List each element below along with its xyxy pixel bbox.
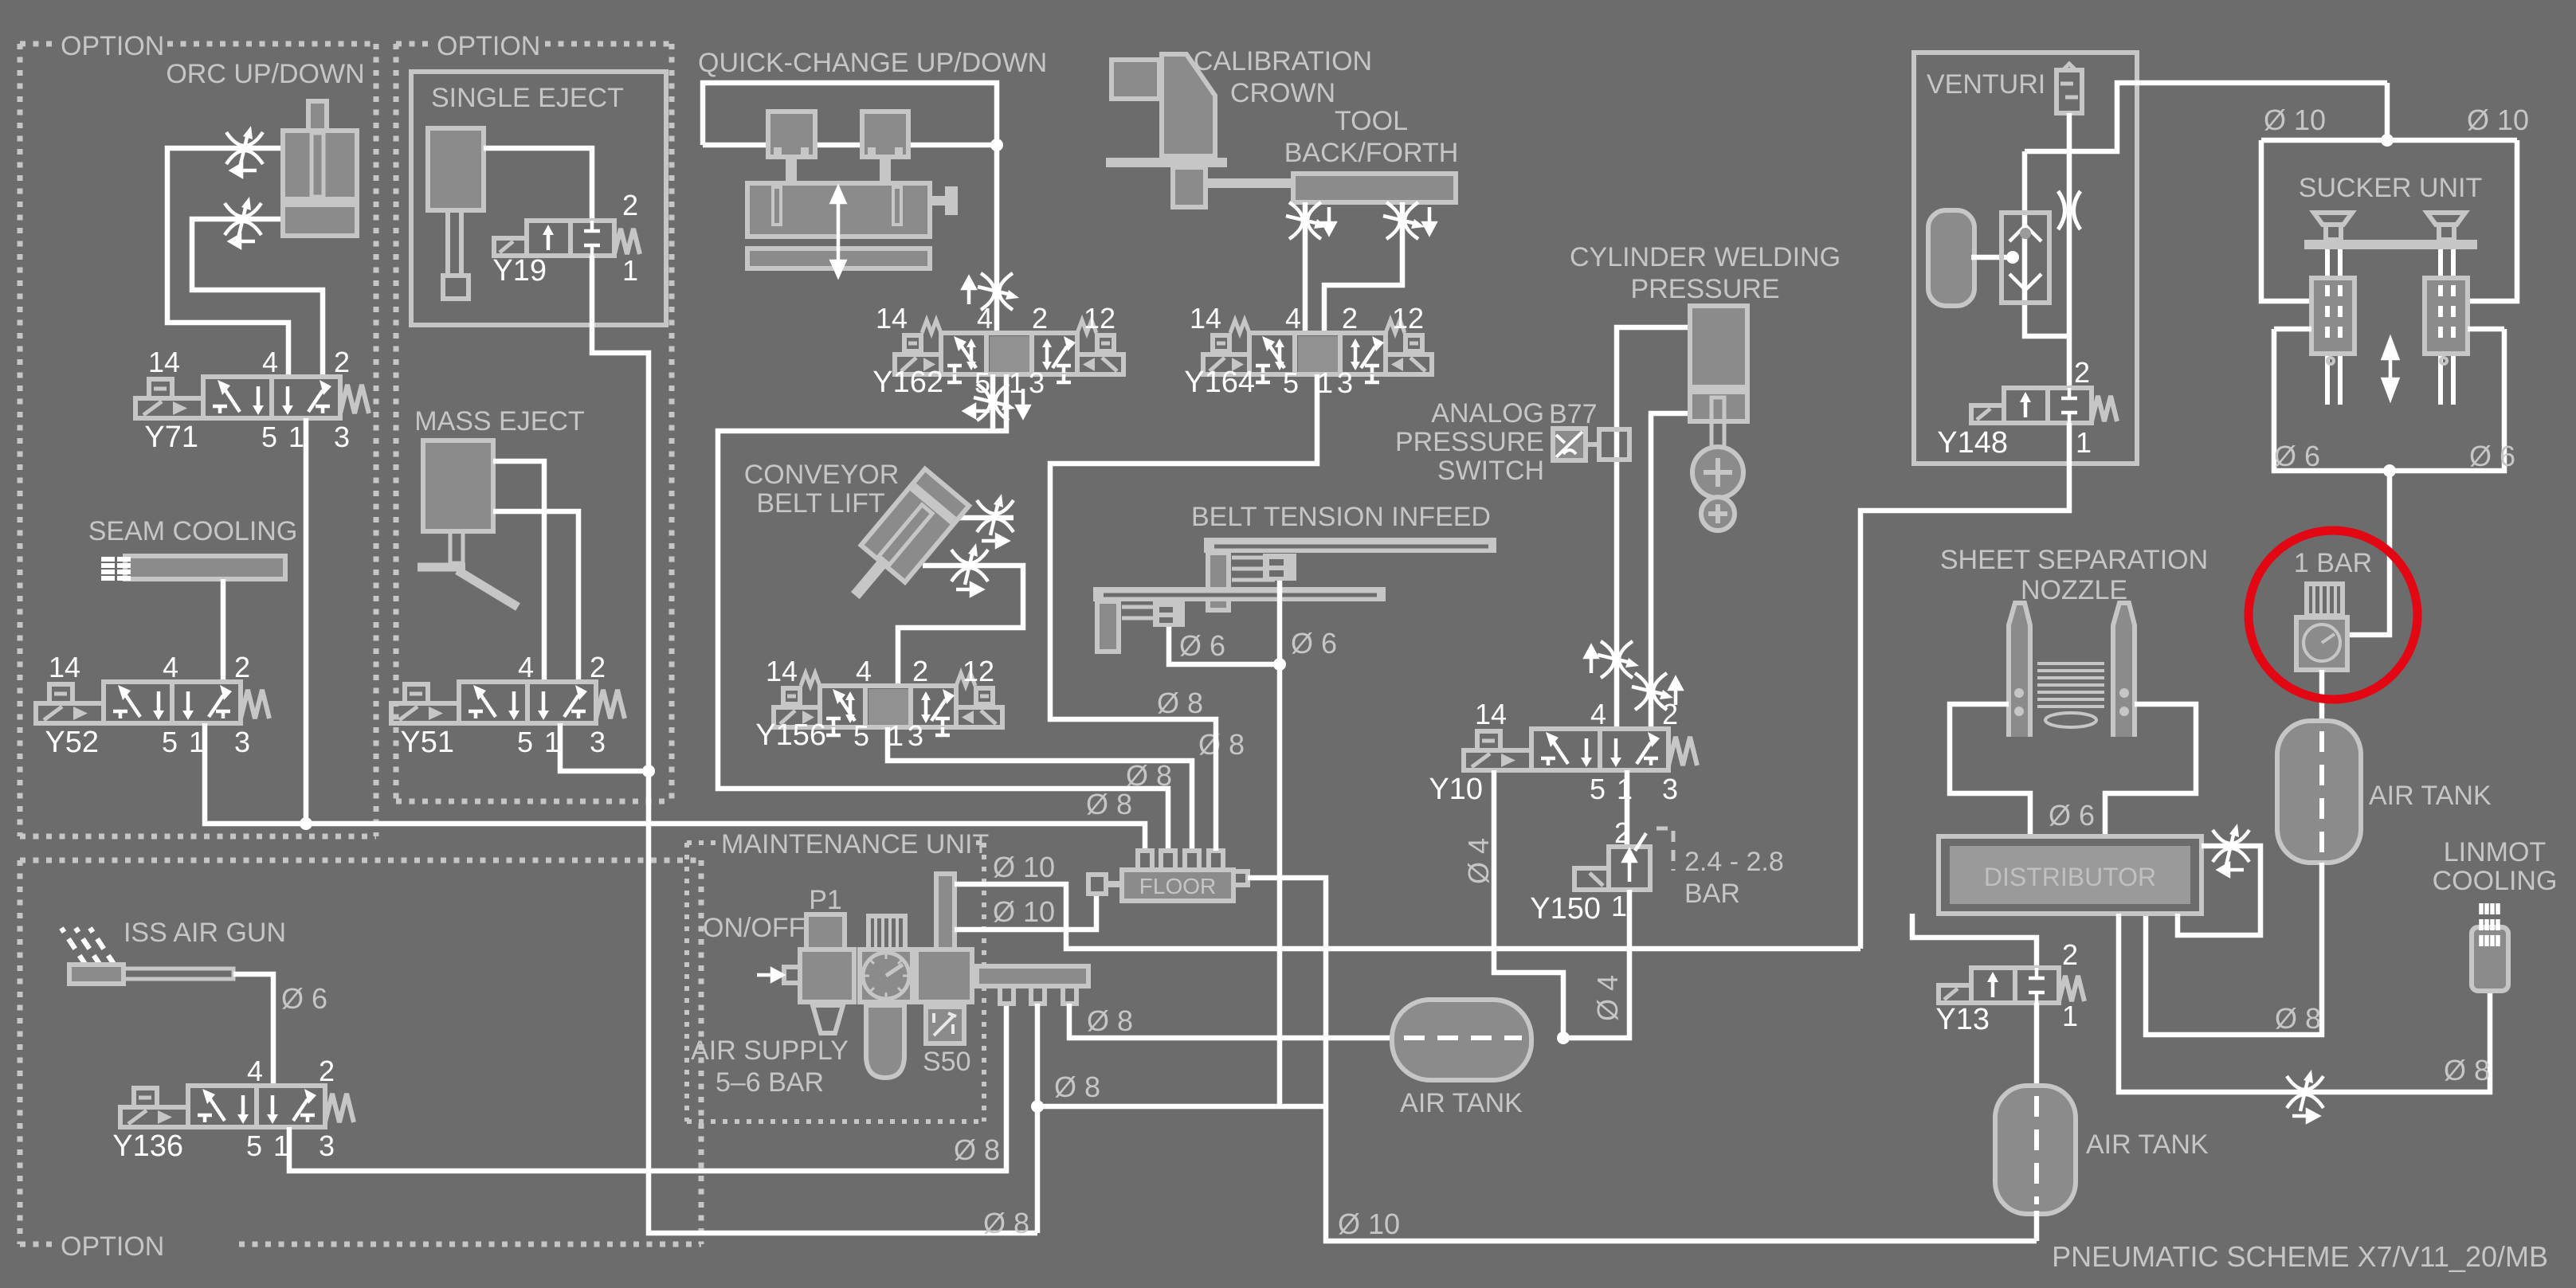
svg-text:14: 14: [766, 655, 798, 687]
wire venturi main: [2067, 113, 2072, 388]
valve Y162: [895, 320, 1123, 382]
svg-text:2: 2: [1662, 698, 1678, 730]
throttle welding B: [1632, 673, 1673, 710]
wire distributor relief loop: [2178, 846, 2260, 935]
wire manifold port3 to air tank: [1069, 1004, 1394, 1038]
junction Y71/Y52: [300, 817, 312, 830]
svg-text:P1: P1: [809, 885, 842, 915]
svg-text:5: 5: [162, 726, 178, 758]
single eject foot: [443, 276, 469, 299]
svg-text:Y150: Y150: [1530, 892, 1601, 926]
svg-text:12: 12: [963, 655, 994, 687]
svg-text:12: 12: [1392, 302, 1424, 335]
wire supply bus to floor riser: [1037, 1104, 1326, 1110]
svg-text:BAR: BAR: [1684, 879, 1740, 909]
arrow quick-change throttle: [963, 278, 974, 304]
svg-text:Y71: Y71: [144, 421, 198, 454]
regulator knob: [2307, 584, 2343, 616]
svg-text:Y51: Y51: [400, 726, 454, 759]
labels Y19: [492, 189, 638, 288]
svg-text:Ø 6: Ø 6: [2469, 440, 2515, 472]
arrow orc upper: [232, 165, 257, 176]
red circle highlight: [2249, 530, 2417, 699]
junction sucker bottom: [2383, 464, 2396, 477]
svg-text:Ø 8: Ø 8: [1157, 687, 1203, 719]
maintenance S50 sensor: [926, 1007, 964, 1043]
svg-text:ANALOG: ANALOG: [1431, 398, 1544, 429]
throttle tool B: [1383, 202, 1425, 239]
single eject rod: [448, 210, 461, 277]
wire reservoir to ejector: [1971, 255, 2013, 260]
svg-text:DISTRIBUTOR: DISTRIBUTOR: [1984, 863, 2156, 891]
junction belt tension: [1273, 658, 1286, 671]
linmot nozzle: [2472, 903, 2508, 991]
cylinder ORC piston: [285, 197, 355, 207]
svg-text:Y148: Y148: [1937, 426, 2008, 460]
svg-text:FLOOR: FLOOR: [1139, 874, 1216, 898]
svg-text:CROWN: CROWN: [1230, 78, 1335, 108]
wire sucker bottom loop: [2274, 329, 2504, 471]
single eject cylinder: [428, 128, 484, 210]
air gun body: [69, 965, 124, 984]
wire belt upper clamp: [1277, 581, 1283, 664]
tool cylinder: [1293, 174, 1456, 202]
svg-text:CALIBRATION: CALIBRATION: [1194, 46, 1372, 76]
svg-text:Ø 10: Ø 10: [2264, 104, 2326, 136]
maintenance manifold: [977, 966, 1088, 986]
label ANALOG PRESSURE SWITCH: [1395, 398, 1544, 486]
arrow welding A: [1586, 647, 1597, 673]
wire tank bottom to line: [2034, 1211, 2040, 1241]
svg-text:2: 2: [234, 651, 250, 683]
wire Y150 port1: [1563, 890, 1629, 1038]
svg-text:3: 3: [908, 719, 923, 752]
svg-text:2: 2: [622, 189, 638, 221]
svg-text:2.4 - 2.8: 2.4 - 2.8: [1684, 847, 1784, 877]
svg-text:2: 2: [2074, 356, 2090, 389]
table slot 2: [893, 187, 901, 225]
table slot 1: [773, 187, 781, 225]
svg-text:5: 5: [246, 1129, 262, 1162]
maintenance inlet port: [784, 967, 800, 983]
wire Y164 port1 to floor: [1050, 374, 1317, 851]
svg-text:Y19: Y19: [492, 254, 547, 288]
svg-text:QUICK-CHANGE UP/DOWN: QUICK-CHANGE UP/DOWN: [698, 48, 1047, 78]
maintenance on/off pilot: [806, 914, 845, 949]
svg-text:2: 2: [590, 651, 606, 683]
manifold port 2: [1031, 986, 1045, 1004]
svg-text:2: 2: [2062, 938, 2078, 971]
wire sucker to regulator: [2347, 471, 2390, 635]
venturi ejector: [2002, 213, 2049, 303]
wire Y19 port1 supply: [592, 256, 1037, 1233]
valve Y156: [774, 673, 1002, 735]
wire mass eject to Y51 port4: [493, 461, 544, 682]
svg-text:Y156: Y156: [755, 718, 826, 752]
label CONVEYOR BELT LIFT: [744, 460, 900, 519]
belt lower clamp: [1153, 601, 1185, 627]
sucker bar: [2304, 240, 2477, 249]
wire Y10 port1 to Y150: [1625, 770, 1630, 847]
label 2.4 - 2.8 BAR: [1684, 847, 1784, 909]
svg-text:14: 14: [148, 346, 180, 378]
svg-text:2: 2: [1032, 302, 1048, 335]
floor left port: [1088, 875, 1122, 894]
valve Y10: [1464, 729, 1697, 770]
floor port a: [1138, 851, 1152, 871]
air tank vertical: [2277, 721, 2361, 863]
maintenance knob: [868, 916, 905, 949]
wire Y162 port5 down: [990, 374, 996, 429]
svg-text:BELT TENSION INFEED: BELT TENSION INFEED: [1191, 502, 1491, 532]
sucker rods left: [2327, 249, 2340, 405]
air tank horizontal: [1392, 1000, 1531, 1080]
throttle linmot: [2287, 1070, 2323, 1111]
svg-text:Ø 8: Ø 8: [1087, 1004, 1133, 1037]
svg-text:Y136: Y136: [112, 1129, 183, 1163]
svg-text:14: 14: [876, 302, 908, 335]
vacuum reservoir: [1928, 210, 1974, 306]
svg-text:4: 4: [247, 1055, 263, 1087]
seam cooling sprayer: [125, 556, 285, 579]
svg-text:4: 4: [262, 346, 278, 378]
belt upper block: [1208, 553, 1229, 610]
valve Y13: [1939, 968, 2084, 1003]
sucker up/down arrow: [2383, 339, 2398, 398]
maintenance right pipe: [936, 874, 955, 949]
wire mass eject to Y51 port2: [493, 511, 578, 682]
venturi restriction: [2058, 191, 2080, 229]
arrow welding B: [1670, 679, 1681, 705]
wire cylinder to Y19: [484, 148, 592, 221]
table stem 1: [786, 157, 797, 183]
label LINMOT COOLING: [2433, 837, 2558, 896]
svg-text:COOLING: COOLING: [2433, 866, 2558, 896]
svg-text:PNEUMATIC SCHEME X7/V11_20/MB: PNEUMATIC SCHEME X7/V11_20/MB: [2052, 1240, 2548, 1273]
svg-text:LINMOT: LINMOT: [2444, 837, 2546, 867]
floor body: [1122, 870, 1233, 901]
svg-text:BELT LIFT: BELT LIFT: [756, 488, 884, 519]
belt lower block: [1097, 601, 1119, 652]
svg-text:Ø 8: Ø 8: [2275, 1002, 2321, 1035]
belt upper lines: [1232, 558, 1275, 580]
valve Y51: [391, 682, 625, 723]
arrow linmot throttle: [2292, 1110, 2318, 1122]
option box 1 border: [20, 44, 376, 836]
svg-text:2: 2: [319, 1055, 335, 1087]
throttle distributor: [2213, 824, 2249, 865]
svg-text:3: 3: [334, 421, 350, 453]
arrow orc lower: [230, 236, 255, 247]
svg-text:14: 14: [1475, 698, 1507, 730]
svg-text:3: 3: [319, 1129, 335, 1162]
welding plus circle small: [1701, 497, 1735, 530]
regulator body: [2296, 617, 2347, 670]
svg-text:B77: B77: [1549, 399, 1598, 429]
floor right port: [1233, 871, 1248, 885]
pressure switch B77: [1553, 429, 1629, 460]
labels Y164 ports: [1184, 302, 1424, 399]
belt upper rail: [1204, 538, 1496, 553]
labels Y51 ports: [400, 651, 606, 759]
junction sucker top: [2381, 134, 2394, 147]
nozzle dots: [2014, 688, 2129, 716]
wire welding top port: [1617, 327, 1690, 729]
label AIR SUPPLY 5-6 BAR: [691, 1035, 849, 1098]
mass eject stem: [450, 531, 463, 563]
wire Y51 port1: [560, 723, 649, 771]
nozzle prong left: [2009, 603, 2030, 737]
svg-text:Y13: Y13: [1935, 1003, 1990, 1036]
labels Y13: [1935, 938, 2078, 1036]
label CYLINDER WELDING PRESSURE: [1570, 242, 1841, 304]
svg-text:PRESSURE: PRESSURE: [1395, 427, 1544, 457]
sprayer nozzle dashes: [101, 557, 131, 581]
junction Y51/Y19 line: [642, 765, 655, 777]
svg-text:1: 1: [2076, 426, 2092, 459]
mass eject foot bar: [418, 563, 465, 572]
svg-text:VENTURI: VENTURI: [1927, 69, 2045, 100]
wire Y13 port1 to tank: [2034, 1003, 2040, 1089]
labels Y156 ports: [755, 655, 994, 752]
svg-text:AIR SUPPLY: AIR SUPPLY: [691, 1035, 849, 1066]
svg-text:SWITCH: SWITCH: [1437, 456, 1544, 486]
maintenance gauge: [863, 953, 909, 999]
tool rod: [1206, 178, 1296, 188]
svg-text:4: 4: [856, 655, 872, 687]
wire Y162 port1 down: [718, 374, 1168, 851]
table knob: [945, 186, 958, 215]
cylinder ORC body: [283, 131, 357, 236]
wire belt junction down: [1277, 664, 1283, 1106]
labels Y150: [1530, 816, 1630, 926]
wire conveyor upper port: [951, 515, 1014, 521]
svg-text:Ø 8: Ø 8: [2444, 1054, 2490, 1086]
table block 2 legs: [872, 147, 899, 157]
throttle tool A: [1286, 202, 1327, 239]
svg-text:Ø 6: Ø 6: [2049, 799, 2095, 832]
svg-text:3: 3: [1662, 773, 1678, 805]
air gun barrel: [124, 969, 233, 979]
wire distributor to linmot line: [2119, 914, 2490, 1092]
wire Y136 port1 to maintenance: [289, 1004, 1006, 1171]
svg-text:4: 4: [977, 302, 993, 335]
svg-text:3: 3: [1029, 366, 1045, 399]
crown body: [1112, 54, 1215, 156]
svg-text:OPTION: OPTION: [61, 1231, 164, 1262]
venturi box: [1914, 53, 2137, 464]
wire ejector vertical: [2025, 151, 2069, 336]
svg-text:Y52: Y52: [45, 726, 99, 759]
svg-text:Ø 8: Ø 8: [1198, 728, 1245, 761]
junction reservoir: [2006, 251, 2019, 264]
manifold port 3: [1063, 986, 1076, 1004]
wire conveyor lower port: [898, 566, 1023, 686]
wire ORC bottom port: [192, 219, 323, 377]
sucker guide left: [2311, 278, 2354, 364]
suction cup left: [2314, 213, 2352, 240]
svg-text:Ø 10: Ø 10: [993, 851, 1055, 883]
svg-text:5: 5: [1283, 366, 1299, 399]
svg-text:1 BAR: 1 BAR: [2294, 548, 2372, 578]
sucker guide right: [2425, 278, 2468, 364]
svg-text:Ø 6: Ø 6: [1291, 627, 1337, 660]
label TOOL BACK/FORTH: [1284, 106, 1459, 168]
svg-text:AIR TANK: AIR TANK: [2086, 1129, 2209, 1160]
maintenance filter bowl: [866, 1005, 904, 1078]
svg-text:S50: S50: [923, 1047, 971, 1077]
maintenance dashed box: [687, 843, 984, 1122]
svg-text:SUCKER UNIT: SUCKER UNIT: [2299, 173, 2482, 203]
arrow tool A: [1323, 207, 1335, 233]
air gun spray lines: [61, 928, 115, 965]
floor port c: [1185, 851, 1199, 871]
arrow maintenance inlet: [757, 969, 782, 981]
svg-text:Ø 4: Ø 4: [1462, 838, 1495, 884]
throttle orc lower: [225, 197, 261, 238]
svg-text:Ø 8: Ø 8: [954, 1133, 1000, 1166]
throttle Y162 port5: [974, 384, 1015, 421]
wire regulator out: [2319, 670, 2325, 721]
mass eject blade: [457, 570, 518, 607]
svg-text:AIR TANK: AIR TANK: [1400, 1088, 1523, 1118]
venturi silencer: [2056, 64, 2082, 113]
crown base bar: [1106, 158, 1227, 167]
table block 2: [862, 112, 908, 157]
svg-text:Ø 8: Ø 8: [983, 1207, 1029, 1239]
wire Y148 port1 supply: [1860, 423, 2069, 949]
valve Y150: [1574, 828, 1673, 890]
mass eject cylinder: [423, 440, 493, 531]
svg-text:14: 14: [49, 651, 80, 683]
wire manifold port2 supply bus: [1035, 1004, 1041, 1233]
distributor body: [1939, 836, 2202, 914]
table base plate: [747, 249, 930, 268]
labels Y136 ports: [112, 1055, 335, 1163]
svg-text:4: 4: [1285, 302, 1301, 335]
suction cup right: [2427, 213, 2465, 240]
welding cylinder: [1690, 306, 1747, 448]
wire tank down: [2146, 863, 2322, 1035]
svg-text:1: 1: [2062, 1000, 2078, 1032]
svg-text:5: 5: [261, 421, 277, 453]
nozzle coil: [2037, 664, 2104, 727]
svg-text:Y162: Y162: [872, 366, 943, 399]
valve Y52: [36, 682, 269, 723]
svg-text:3: 3: [1337, 366, 1353, 399]
throttle conveyor lower: [951, 543, 988, 585]
svg-text:SINGLE EJECT: SINGLE EJECT: [431, 83, 624, 113]
junction supply bus: [1031, 1100, 1044, 1113]
label SHEET SEPARATION NOZZLE: [1940, 545, 2208, 605]
labels Y71 ports: [144, 346, 350, 454]
svg-text:5: 5: [853, 719, 869, 752]
throttle conveyor upper: [977, 494, 1014, 535]
svg-text:Ø 6: Ø 6: [2274, 440, 2320, 472]
svg-text:CYLINDER WELDING: CYLINDER WELDING: [1570, 242, 1841, 272]
wire nozzle left: [1950, 704, 2030, 836]
floor port d: [1209, 851, 1223, 871]
svg-text:CONVEYOR: CONVEYOR: [744, 460, 900, 490]
table up/down arrow: [832, 188, 845, 276]
wire ejector top to sucker line: [2025, 83, 2387, 151]
labels Y10 ports: [1429, 698, 1678, 806]
option box 2 border: [396, 44, 672, 801]
option box 3 border: [20, 860, 701, 1244]
maintenance drain funnel: [813, 1005, 843, 1033]
throttle quick-change: [978, 273, 1019, 310]
valve Y19: [494, 221, 640, 256]
svg-text:ORC UP/DOWN: ORC UP/DOWN: [166, 59, 364, 89]
wire sucker top loop: [2261, 83, 2517, 301]
belt lower rail: [1093, 587, 1386, 601]
svg-text:2: 2: [912, 655, 928, 687]
wire Y156 port1: [888, 727, 1192, 851]
svg-text:Ø 8: Ø 8: [1086, 788, 1132, 820]
valve Y71: [135, 377, 369, 418]
svg-text:5–6 BAR: 5–6 BAR: [716, 1067, 824, 1098]
svg-text:4: 4: [163, 651, 178, 683]
svg-text:PRESSURE: PRESSURE: [1630, 274, 1779, 304]
throttle orc upper: [226, 126, 263, 167]
wire quick-change loop: [703, 83, 997, 332]
table stem 2: [880, 157, 891, 183]
manifold port 1: [1000, 986, 1014, 1004]
wire sprayer to Y52: [221, 579, 226, 682]
valve Y136: [120, 1086, 354, 1127]
wire tool port A: [1303, 202, 1308, 333]
wire Y71 port1 down: [304, 418, 309, 824]
cylinder ORC rod: [308, 101, 327, 133]
svg-text:Ø 6: Ø 6: [281, 982, 327, 1015]
arrow conveyor upper: [982, 535, 1007, 546]
svg-text:1: 1: [622, 254, 638, 287]
labels Y148: [1937, 356, 2092, 460]
svg-text:SHEET SEPARATION: SHEET SEPARATION: [1940, 545, 2208, 575]
wire Y52 port1 to floor bus: [205, 723, 1145, 851]
svg-text:1: 1: [288, 421, 304, 453]
wire tool port B: [1324, 202, 1402, 333]
svg-text:Ø 8: Ø 8: [1126, 759, 1172, 792]
wire floor right to bottom line: [1248, 878, 2037, 1241]
svg-text:Ø 10: Ø 10: [1338, 1208, 1400, 1240]
svg-text:12: 12: [1084, 302, 1115, 335]
wire air gun to Y136: [233, 974, 273, 1086]
wire welding bottom port: [1651, 413, 1690, 729]
svg-text:Ø 10: Ø 10: [993, 895, 1055, 928]
maintenance box 3: [916, 949, 972, 1002]
label CALIBRATION CROWN: [1194, 46, 1372, 108]
junction quick-change: [990, 139, 1003, 151]
svg-text:BACK/FORTH: BACK/FORTH: [1284, 138, 1459, 168]
valve Y148: [1971, 388, 2117, 423]
arrow Y162 throttle left: [965, 405, 990, 417]
air tank bottom: [1995, 1086, 2076, 1214]
table block 1 legs: [778, 147, 805, 157]
svg-text:4: 4: [518, 651, 534, 683]
svg-text:4: 4: [1590, 698, 1606, 730]
junction air tank: [1557, 1032, 1570, 1044]
floor port b: [1161, 851, 1175, 871]
svg-text:5: 5: [517, 726, 533, 758]
crown foot: [1173, 167, 1206, 207]
arrow Y162 exhaust: [1017, 389, 1029, 417]
wire ORC top port: [167, 148, 288, 377]
wire distributor to Y13: [1912, 914, 2037, 968]
wire nozzle right: [2105, 704, 2196, 836]
svg-text:1: 1: [1611, 890, 1627, 922]
svg-text:14: 14: [1190, 302, 1221, 335]
